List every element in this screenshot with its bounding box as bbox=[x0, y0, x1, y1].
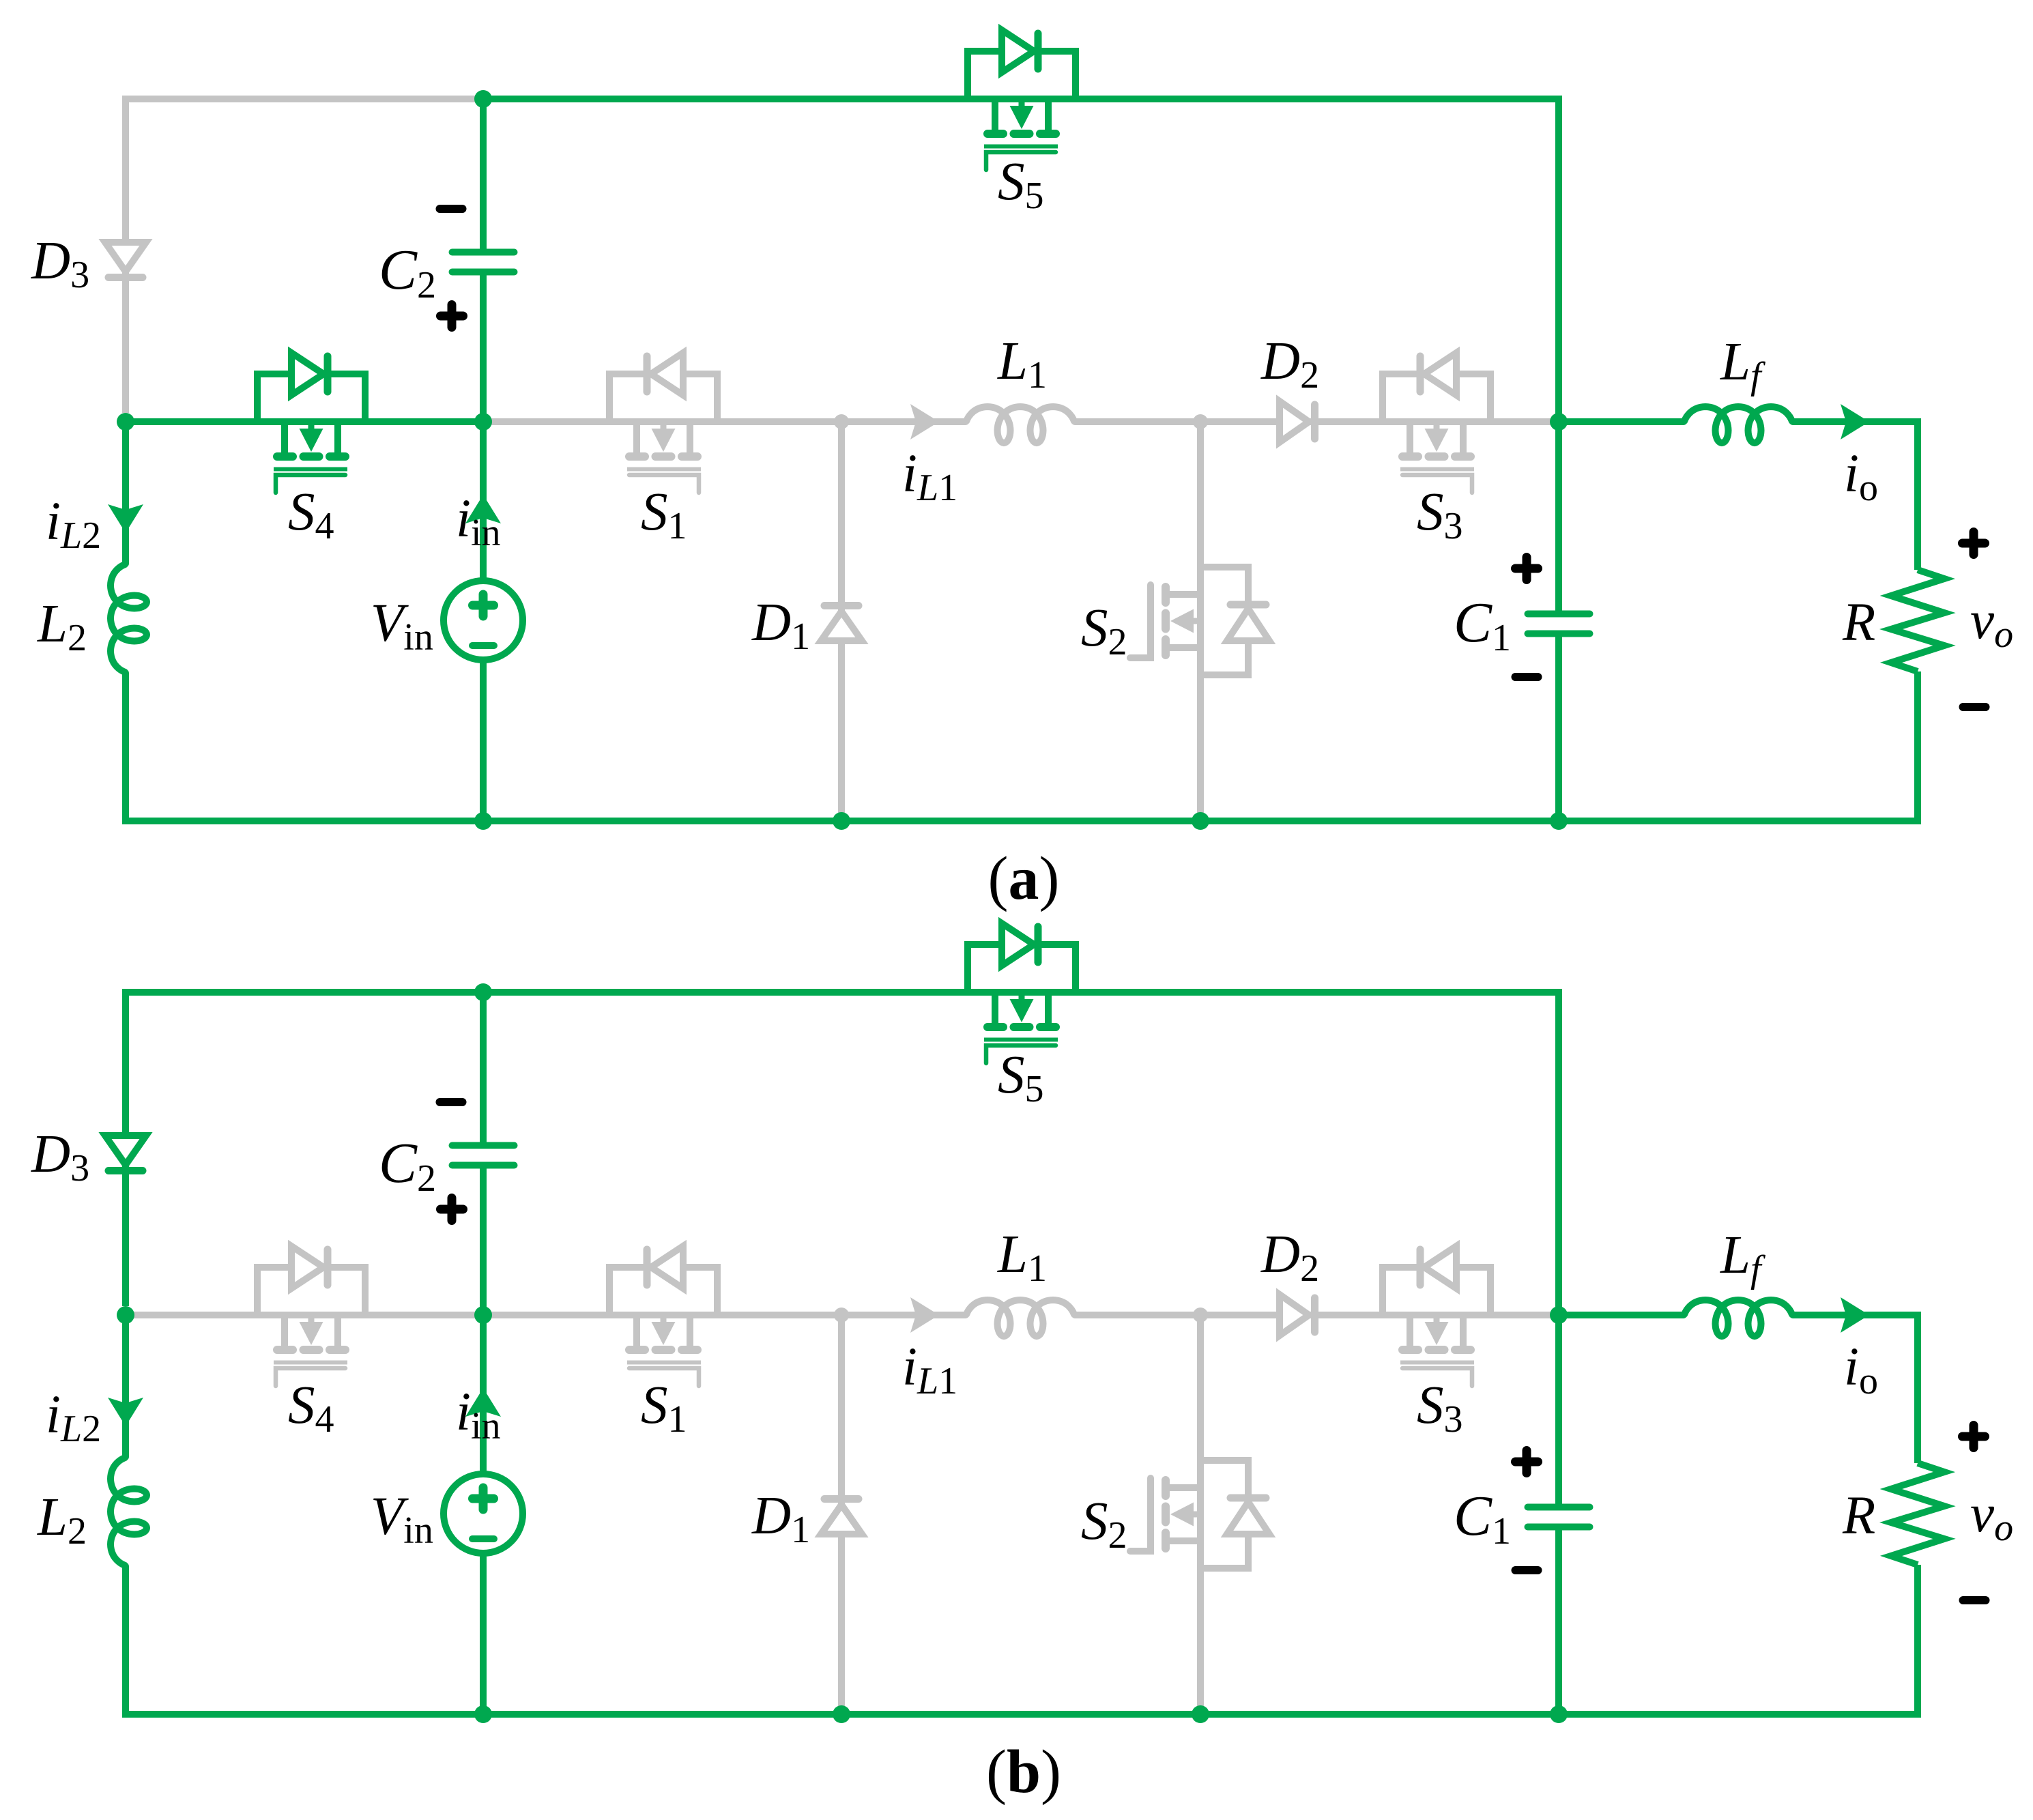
wire: S2 column (b) bbox=[1197, 1315, 1204, 1714]
polarity plus of C1 (b) bbox=[1516, 1451, 1538, 1473]
wire: mid rail gray segment right of L1 (a) bbox=[1075, 418, 1559, 425]
svg-text:L2: L2 bbox=[37, 1488, 87, 1552]
voltage source Vin (a) bbox=[444, 581, 523, 660]
MOSFET switch S1 (a) bbox=[609, 353, 717, 493]
wire: mid rail output segment left of Lf (b) bbox=[1559, 1312, 1684, 1318]
wire: Vin column above source (a) bbox=[480, 422, 487, 582]
MOSFET switch S5 (a) bbox=[968, 30, 1076, 170]
diode D2 (a) bbox=[1280, 401, 1315, 442]
svg-text:io: io bbox=[1844, 444, 1878, 509]
wire: mid rail gray segment left of L1 (b) bbox=[483, 1312, 966, 1318]
wire: left column above L2 (a) bbox=[122, 422, 129, 564]
svg-text:iL2: iL2 bbox=[46, 1385, 101, 1450]
current arrow iL1 (a) bbox=[910, 404, 939, 439]
svg-text:iL2: iL2 bbox=[46, 492, 101, 557]
MOSFET switch S2 (b) bbox=[1130, 1460, 1269, 1568]
svg-text:S1: S1 bbox=[641, 1376, 687, 1441]
svg-text:D1: D1 bbox=[751, 1486, 810, 1551]
svg-text:L1: L1 bbox=[997, 332, 1047, 396]
inductor Lf (b) bbox=[1684, 1300, 1793, 1336]
diode D1 (b) bbox=[821, 1499, 862, 1535]
wire: mid rail output segment right of Lf (a) bbox=[1793, 422, 1918, 570]
svg-text:vo: vo bbox=[1970, 1484, 2013, 1549]
svg-text:S3: S3 bbox=[1417, 482, 1463, 547]
svg-text:io: io bbox=[1844, 1338, 1878, 1402]
wire: C2 column lower segment (b) bbox=[480, 1165, 487, 1315]
wire: C1 column below capacitor (b) bbox=[1555, 1526, 1562, 1714]
svg-text:D1: D1 bbox=[751, 593, 810, 658]
svg-text:L1: L1 bbox=[997, 1225, 1047, 1290]
inductor L1 (b) bbox=[966, 1300, 1075, 1336]
wire: load column through R (b) bbox=[1914, 1565, 1921, 1714]
wire: C1 column above capacitor (b) bbox=[1555, 1315, 1562, 1508]
wire: top rail right segment x708-x2284 (b) bbox=[483, 992, 1559, 1315]
wire: mid rail left segment (S4 branch) (a) bbox=[126, 418, 483, 425]
polarity plus of load vo (b) bbox=[1963, 1426, 1985, 1448]
inductor L2 (a) bbox=[111, 564, 147, 673]
node: mid rail / C1 junction (b) bbox=[1550, 1306, 1568, 1324]
diode D3 (a) bbox=[105, 242, 146, 278]
node: mid rail / S2 junction (a) bbox=[1193, 414, 1208, 429]
wire: C1 column above capacitor (a) bbox=[1555, 422, 1562, 615]
MOSFET switch S3 (b) bbox=[1383, 1246, 1490, 1386]
polarity plus of load vo (a) bbox=[1963, 532, 1985, 555]
diode D1 (a) bbox=[821, 606, 862, 641]
MOSFET switch S5 (b) bbox=[968, 923, 1076, 1063]
wire: mid rail gray segment right of L1 (b) bbox=[1075, 1312, 1559, 1318]
current arrow iin (a) bbox=[465, 495, 501, 523]
capacitor C1 (b) bbox=[1528, 1507, 1590, 1527]
node: bottom rail / D1 junction (b) bbox=[833, 1705, 850, 1723]
polarity minus of C1 (b) bbox=[1516, 1566, 1538, 1574]
wire: D1 column (a) bbox=[838, 422, 845, 821]
inductor L2 (b) bbox=[111, 1457, 147, 1566]
svg-text:S2: S2 bbox=[1081, 1492, 1127, 1557]
polarity minus of C2 (b) bbox=[440, 1098, 463, 1106]
node: bottom rail / C1 junction (a) bbox=[1550, 812, 1568, 830]
diode D2 (b) bbox=[1280, 1295, 1315, 1335]
svg-text:D3: D3 bbox=[31, 231, 89, 296]
wire: Vin column below source (b) bbox=[480, 1552, 487, 1714]
node: bottom rail / Vin junction (b) bbox=[474, 1705, 492, 1723]
svg-text:C1: C1 bbox=[1454, 1484, 1511, 1552]
wire: C2 column lower segment (a) bbox=[480, 272, 487, 422]
svg-text:L2: L2 bbox=[37, 594, 87, 659]
wire: C2 column upper segment (a) bbox=[480, 99, 487, 252]
svg-text:C1: C1 bbox=[1454, 591, 1511, 659]
svg-text:Vin: Vin bbox=[371, 1487, 433, 1552]
svg-text:S4: S4 bbox=[288, 1376, 334, 1441]
wire: Vin column above source (b) bbox=[480, 1315, 487, 1475]
current arrow io (a) bbox=[1841, 404, 1869, 439]
wire: mid rail gray segment left of L1 (a) bbox=[483, 418, 966, 425]
polarity minus of load vo (a) bbox=[1963, 703, 1986, 711]
svg-text:iin: iin bbox=[456, 1383, 501, 1447]
resistor R (a) bbox=[1891, 570, 1944, 671]
node: mid rail left / L2-D3 junction (b) bbox=[117, 1306, 134, 1324]
svg-text:S4: S4 bbox=[288, 482, 334, 547]
svg-text:S5: S5 bbox=[998, 152, 1044, 217]
node: bottom rail / S2 junction (b) bbox=[1192, 1705, 1209, 1723]
node: mid rail / C1 junction (a) bbox=[1550, 413, 1568, 431]
node: mid rail / Vin-C2 junction (a) bbox=[474, 413, 492, 431]
node: mid rail / Vin-C2 junction (b) bbox=[474, 1306, 492, 1324]
wire: mid rail output segment left of Lf (a) bbox=[1559, 418, 1684, 425]
wire: left column above L2 (b) bbox=[122, 1315, 129, 1457]
svg-text:S3: S3 bbox=[1417, 1376, 1463, 1441]
capacitor C2 (b) bbox=[452, 1146, 515, 1166]
polarity plus of C1 (a) bbox=[1516, 558, 1538, 580]
current arrow iL2 (a) bbox=[108, 504, 143, 533]
node: bottom rail / S2 junction (a) bbox=[1192, 812, 1209, 830]
svg-text:iL1: iL1 bbox=[902, 1338, 957, 1402]
svg-text:S5: S5 bbox=[998, 1045, 1044, 1110]
wire: D1 column (b) bbox=[838, 1315, 845, 1714]
wire: Vin column below source (a) bbox=[480, 659, 487, 821]
svg-text:R: R bbox=[1842, 593, 1875, 652]
wire: left column below L2 (b) bbox=[122, 1566, 129, 1714]
resistor R (b) bbox=[1891, 1463, 1944, 1565]
capacitor C2 (a) bbox=[452, 252, 515, 272]
MOSFET switch S3 (a) bbox=[1383, 353, 1490, 493]
svg-text:Lf: Lf bbox=[1720, 332, 1766, 397]
svg-text:S1: S1 bbox=[641, 482, 687, 547]
svg-text:(b): (b) bbox=[986, 1738, 1061, 1806]
wire: S2 column (a) bbox=[1197, 422, 1204, 821]
polarity plus of C2 (a) bbox=[441, 305, 463, 328]
wire: mid rail left segment (S4 branch) (b) bbox=[126, 1312, 483, 1318]
MOSFET switch S4 (a) bbox=[257, 353, 365, 493]
inductor L1 (a) bbox=[966, 407, 1075, 443]
MOSFET switch S1 (b) bbox=[609, 1246, 717, 1386]
node: top rail / C2 junction (a) bbox=[474, 90, 492, 108]
wire: top rail right segment x708-x2284 (a) bbox=[483, 99, 1559, 422]
polarity minus of load vo (b) bbox=[1963, 1596, 1986, 1604]
capacitor C1 (a) bbox=[1528, 614, 1590, 634]
node: mid rail / D1 junction (b) bbox=[834, 1308, 849, 1323]
wire: top rail left segment x184-x708 (a) bbox=[126, 99, 483, 413]
node: bottom rail / C1 junction (b) bbox=[1550, 1705, 1568, 1723]
svg-text:C2: C2 bbox=[379, 1131, 436, 1200]
svg-text:Lf: Lf bbox=[1720, 1226, 1766, 1290]
svg-text:R: R bbox=[1842, 1486, 1875, 1546]
node: mid rail left / L2-D3 junction (a) bbox=[117, 413, 134, 431]
wire: bottom rail (b) bbox=[122, 1711, 1921, 1718]
svg-text:D3: D3 bbox=[31, 1125, 89, 1189]
polarity minus of C1 (a) bbox=[1516, 673, 1538, 681]
voltage source Vin (b) bbox=[444, 1474, 523, 1553]
current arrow iL2 (b) bbox=[108, 1398, 143, 1426]
node: bottom rail / Vin junction (a) bbox=[474, 812, 492, 830]
MOSFET switch S2 (a) bbox=[1130, 567, 1269, 675]
node: mid rail / D1 junction (a) bbox=[834, 414, 849, 429]
current arrow iL1 (b) bbox=[910, 1297, 939, 1333]
svg-text:D2: D2 bbox=[1260, 1225, 1319, 1290]
node: top rail / C2 junction (b) bbox=[474, 983, 492, 1001]
node: bottom rail / D1 junction (a) bbox=[833, 812, 850, 830]
wire: left column below L2 (a) bbox=[122, 673, 129, 821]
wire: C2 column upper segment (b) bbox=[480, 992, 487, 1146]
diode D3 (b) bbox=[105, 1136, 146, 1171]
svg-text:S2: S2 bbox=[1081, 598, 1127, 663]
svg-text:(a): (a) bbox=[988, 845, 1060, 912]
svg-text:D2: D2 bbox=[1260, 332, 1319, 396]
svg-text:Vin: Vin bbox=[371, 594, 433, 659]
wire: mid rail output segment right of Lf (b) bbox=[1793, 1315, 1918, 1463]
node: mid rail / S2 junction (b) bbox=[1193, 1308, 1208, 1323]
wire: C1 column below capacitor (a) bbox=[1555, 633, 1562, 821]
current arrow iin (b) bbox=[465, 1388, 501, 1417]
svg-text:iL1: iL1 bbox=[902, 444, 957, 509]
polarity minus of C2 (a) bbox=[440, 205, 463, 213]
svg-text:iin: iin bbox=[456, 489, 501, 554]
polarity plus of C2 (b) bbox=[441, 1198, 463, 1221]
svg-text:vo: vo bbox=[1970, 591, 2013, 656]
wire: bottom rail (a) bbox=[122, 818, 1921, 824]
svg-text:C2: C2 bbox=[379, 238, 436, 306]
MOSFET switch S4 (b) bbox=[257, 1246, 365, 1386]
inductor Lf (a) bbox=[1684, 407, 1793, 443]
wire: top rail left segment x184-x708 (b) bbox=[126, 992, 483, 1306]
wire: load column through R (a) bbox=[1914, 671, 1921, 821]
current arrow io (b) bbox=[1841, 1297, 1869, 1333]
